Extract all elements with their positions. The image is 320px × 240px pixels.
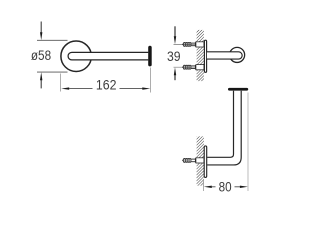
svg-text:39: 39 [167,48,181,64]
dim 39 lower line + arrow [174,67,176,80]
dim 39 upper line + arrow [174,26,176,44]
dim ø58 lower line + arrow [40,72,42,88]
side arm (rounded right end) [207,52,242,59]
dim ø58 bottom extension line [37,71,68,73]
lower screw [182,65,204,70]
screw axis line lower [174,66,204,68]
svg-text:ø58: ø58 [31,47,51,63]
screw axis line upper [174,43,204,45]
bar (horizontal arm, rounded left end) [68,52,148,59]
dim ø58 top extension line [37,39,68,41]
dim 80 line left segment + arrow [204,186,216,188]
wall hatch [197,136,204,185]
svg-text:162: 162 [96,76,117,92]
dim 80 right extension line [247,93,249,192]
rosette circle [61,41,92,71]
dim ø58 upper line + arrow [40,22,42,41]
end disc circle (side) [230,47,245,62]
holder tube outer contour [207,91,241,165]
dim 162 left extension line [60,74,62,92]
svg-text:80: 80 [219,179,232,194]
screw [182,158,204,163]
dim 80 left extension line [203,179,205,191]
dim 162 line right segment + arrow [120,87,151,89]
top cap disc [228,88,248,91]
wall plate (side) [204,40,206,72]
wall hatch [197,30,204,81]
dim 162 line left segment + arrow [61,87,92,89]
holder tube inner contour [207,91,233,158]
end stop cap [148,46,152,67]
wall plate (side) [204,146,207,178]
dim 80 line right segment + arrow [235,186,248,188]
dim 162 right extension line [150,68,152,93]
upper screw [182,42,204,47]
